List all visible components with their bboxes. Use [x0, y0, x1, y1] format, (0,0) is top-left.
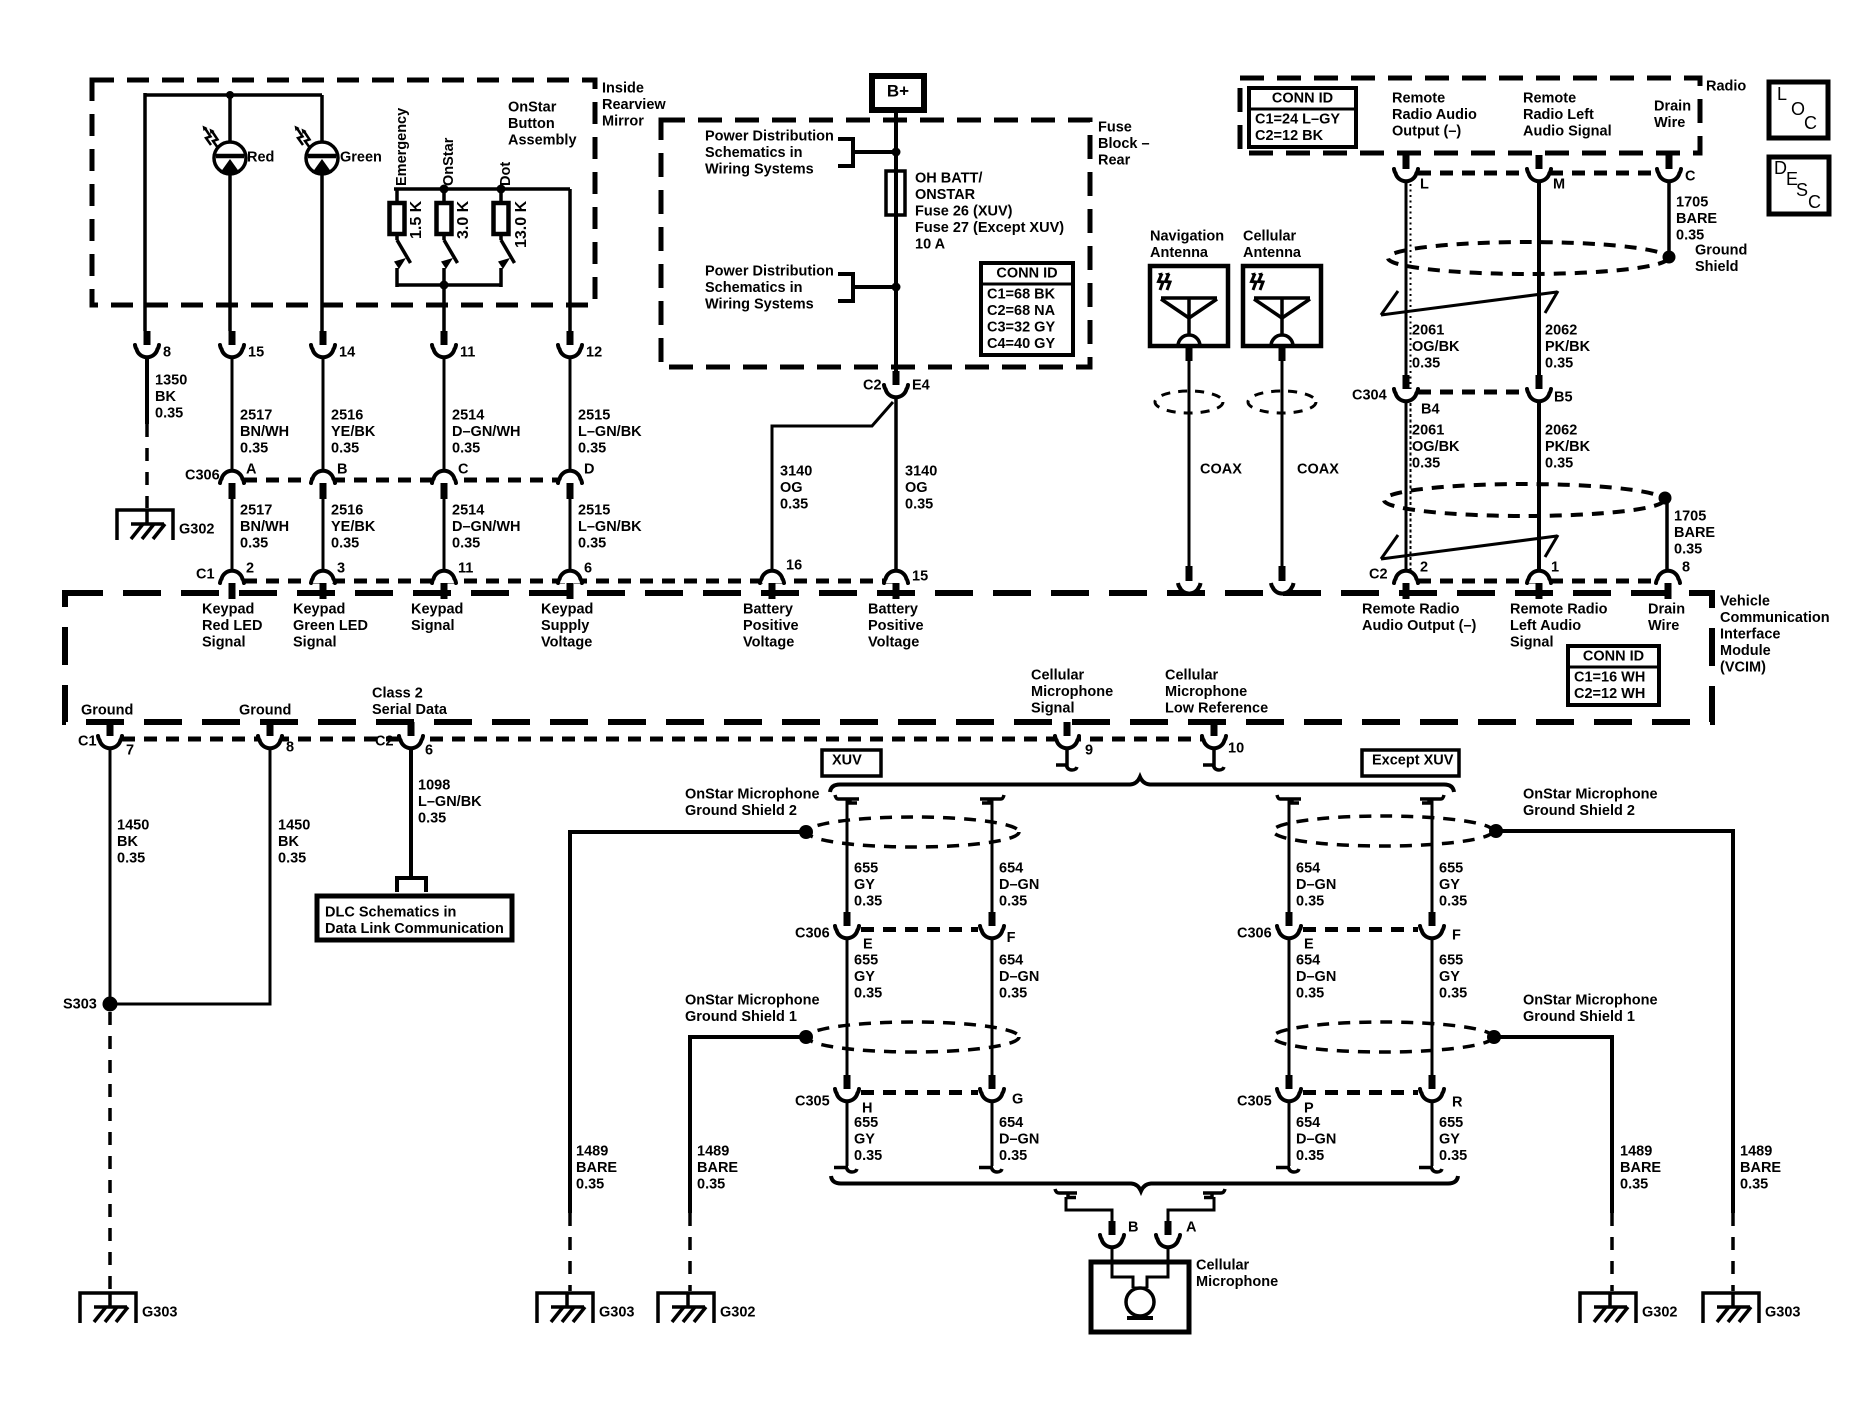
svg-text:E4: E4: [912, 378, 930, 394]
svg-text:Green LED: Green LED: [293, 618, 368, 634]
svg-text:Cellular: Cellular: [1031, 668, 1085, 684]
wire ground shield 2 ExXUV: [1496, 831, 1733, 1291]
svg-text:0.35: 0.35: [1439, 986, 1467, 1002]
svg-text:0.35: 0.35: [999, 986, 1027, 1002]
svg-text:D–GN: D–GN: [1296, 1132, 1336, 1148]
svg-text:Remote: Remote: [1392, 91, 1445, 107]
svg-text:1450: 1450: [278, 818, 310, 834]
wire C2 row dashed link: [1418, 579, 1657, 584]
wire coax cellular: [1279, 348, 1286, 581]
label wire 655 upper 1: [854, 861, 882, 910]
svg-text:C4=40 GY: C4=40 GY: [987, 336, 1055, 352]
svg-text:Wiring Systems: Wiring Systems: [705, 162, 814, 178]
svg-text:G302: G302: [720, 1305, 755, 1321]
connector radio pin L: [1394, 155, 1429, 193]
connector C306 pin A: [220, 462, 257, 499]
svg-text:BARE: BARE: [1740, 1160, 1781, 1176]
svg-text:Microphone: Microphone: [1031, 684, 1113, 700]
label Battery Positive Voltage 2: [868, 602, 924, 651]
node bus junction Dot: [497, 185, 506, 194]
box Inside Rearview Mirror (dashed): [92, 80, 595, 305]
svg-text:2: 2: [246, 561, 254, 577]
label OnStar Microphone Ground Shield 2 (XUV): [685, 787, 820, 820]
label wire 655 lower 4: [1439, 1115, 1467, 1164]
svg-text:655: 655: [1439, 861, 1463, 877]
node ground shield junction lower: [1659, 492, 1672, 505]
svg-text:0.35: 0.35: [1296, 894, 1324, 910]
svg-text:BN/WH: BN/WH: [240, 424, 289, 440]
svg-text:BK: BK: [117, 834, 138, 850]
svg-text:Radio: Radio: [1706, 79, 1746, 95]
svg-text:Navigation: Navigation: [1150, 229, 1224, 245]
svg-text:655: 655: [1439, 953, 1463, 969]
svg-text:OnStar Microphone: OnStar Microphone: [685, 787, 820, 803]
svg-text:0.35: 0.35: [578, 536, 606, 552]
shield ellipse radio upper: [1388, 242, 1668, 274]
svg-text:Keypad: Keypad: [202, 602, 254, 618]
svg-text:XUV: XUV: [832, 753, 862, 769]
svg-text:Communication: Communication: [1720, 610, 1830, 626]
svg-text:Wire: Wire: [1654, 115, 1685, 131]
hook to mic A: [1168, 1189, 1225, 1222]
wire 3140 diagonal branch: [772, 402, 893, 569]
label Inside Rearview Mirror: [602, 81, 666, 130]
svg-text:8: 8: [163, 345, 171, 361]
wire 2517 upper: [231, 359, 234, 469]
svg-text:655: 655: [854, 953, 878, 969]
svg-text:10: 10: [1228, 741, 1244, 757]
power feed B+ box: [872, 76, 924, 110]
svg-text:C2=12 WH: C2=12 WH: [1574, 686, 1645, 702]
connector C305 pin P mic 3: [1277, 1075, 1314, 1117]
box LOC: [1769, 82, 1828, 138]
wire drain lower: [1665, 502, 1669, 569]
wire C306 mic right dashed: [1303, 927, 1418, 932]
connector radio pin M: [1527, 155, 1565, 193]
label wire 1450 BK right: [278, 818, 310, 867]
svg-text:0.35: 0.35: [854, 1148, 882, 1164]
svg-text:2062: 2062: [1545, 423, 1577, 439]
svg-text:C1: C1: [78, 734, 97, 750]
connector C2 pin 6b: [399, 722, 433, 759]
wire 2514 lower: [443, 498, 446, 569]
label C306 mic right: [1237, 926, 1272, 942]
svg-text:Ground: Ground: [239, 703, 291, 719]
svg-text:0.35: 0.35: [1412, 356, 1440, 372]
label wire 1489 BARE c: [1740, 1144, 1781, 1193]
svg-text:2516: 2516: [331, 408, 363, 424]
svg-text:1098: 1098: [418, 778, 450, 794]
svg-text:Ground Shield 1: Ground Shield 1: [1523, 1009, 1635, 1025]
node shield1 ExXUV dot: [1487, 1030, 1501, 1044]
svg-text:Interface: Interface: [1720, 627, 1780, 643]
wire mic pin B lead: [1111, 1249, 1114, 1264]
svg-text:0.35: 0.35: [1676, 228, 1704, 244]
connector C306 pin F mic 2: [980, 912, 1016, 946]
svg-text:0.35: 0.35: [1439, 894, 1467, 910]
svg-text:0.35: 0.35: [1296, 986, 1324, 1002]
svg-text:2514: 2514: [452, 503, 484, 519]
svg-text:E: E: [863, 937, 873, 953]
wire mic mid 2: [991, 940, 994, 1075]
wire mic mid 3: [1288, 940, 1291, 1075]
connector C1 pin 8b: [258, 722, 294, 756]
connector C2 pin E4: [863, 371, 930, 397]
svg-text:Microphone: Microphone: [1196, 1274, 1278, 1290]
svg-text:2062: 2062: [1545, 323, 1577, 339]
svg-text:Voltage: Voltage: [541, 635, 592, 651]
label Dot (rotated): [498, 162, 514, 186]
label wire 655 mid 4: [1439, 953, 1467, 1002]
label wire 654 lower 2: [999, 1115, 1039, 1164]
svg-text:D–GN: D–GN: [999, 969, 1039, 985]
label wire 1705 BARE upper: [1676, 195, 1717, 244]
svg-text:G303: G303: [1765, 1305, 1800, 1321]
wire C304 dashed link: [1418, 390, 1527, 395]
LED Green: [295, 126, 382, 175]
wire remote audio output (dotted shield): [1406, 183, 1411, 570]
svg-text:Radio Audio: Radio Audio: [1392, 107, 1477, 123]
wire radio pin row dashed: [1418, 171, 1657, 176]
label Remote Radio Left Audio Signal: [1523, 91, 1612, 140]
connector VCIM pin 15: [884, 569, 928, 599]
ground G302 d: [1580, 1292, 1677, 1323]
svg-text:15: 15: [912, 569, 928, 585]
svg-text:2517: 2517: [240, 503, 272, 519]
svg-text:OnStar: OnStar: [508, 100, 557, 116]
svg-text:C306: C306: [1237, 926, 1272, 942]
antenna Cellular: [1243, 229, 1321, 346]
svg-text:D–GN/WH: D–GN/WH: [452, 424, 520, 440]
svg-text:YE/BK: YE/BK: [331, 519, 376, 535]
box Fuse Block - Rear (dashed): [661, 120, 1090, 367]
svg-text:OH BATT/: OH BATT/: [915, 171, 982, 187]
label COAX cellular: [1297, 462, 1339, 478]
svg-text:Signal: Signal: [1031, 701, 1075, 717]
svg-text:Signal: Signal: [1510, 635, 1554, 651]
svg-text:GY: GY: [1439, 1132, 1460, 1148]
svg-text:Schematics in: Schematics in: [705, 280, 803, 296]
svg-text:654: 654: [999, 861, 1023, 877]
svg-text:D–GN: D–GN: [999, 1132, 1039, 1148]
label wire 655 mid 1: [854, 953, 882, 1002]
svg-text:0.35: 0.35: [331, 536, 359, 552]
svg-text:L: L: [1420, 177, 1429, 193]
svg-text:3140: 3140: [905, 464, 937, 480]
svg-text:C2: C2: [863, 378, 882, 394]
svg-text:Drain: Drain: [1648, 602, 1685, 618]
svg-text:YE/BK: YE/BK: [331, 424, 376, 440]
wire battery feed: [894, 110, 898, 371]
svg-text:Output (–): Output (–): [1392, 124, 1461, 140]
svg-text:Cellular: Cellular: [1165, 668, 1219, 684]
svg-text:Dot: Dot: [498, 162, 514, 186]
svg-text:0.35: 0.35: [854, 986, 882, 1002]
svg-text:GY: GY: [854, 969, 875, 985]
svg-text:7: 7: [126, 743, 134, 759]
svg-text:GY: GY: [1439, 969, 1460, 985]
connector VCIM pin 2: [1394, 560, 1428, 599]
svg-text:C2: C2: [1369, 567, 1388, 583]
resistor 13.0 K with Dot switch: [494, 189, 531, 287]
label Remote Radio Audio Output: [1392, 91, 1477, 140]
wire mic low 2: [979, 1103, 1002, 1172]
brace bottom: [831, 1176, 1458, 1191]
connector C305 pin G mic 2: [980, 1075, 1023, 1108]
label C2 (bottom): [375, 734, 394, 750]
label wire 655 lower 1: [854, 1115, 882, 1164]
svg-text:BARE: BARE: [576, 1160, 617, 1176]
wire 1350 BK from pin 8: [145, 359, 149, 508]
label Remote Radio Left Audio Signal (VCIM): [1510, 602, 1608, 651]
wire 2061 lower: [1406, 403, 1411, 570]
label Emergency (rotated): [394, 108, 410, 186]
wire mic mid 4: [1431, 940, 1434, 1075]
svg-text:C2: C2: [375, 734, 394, 750]
svg-text:Shield: Shield: [1695, 259, 1739, 275]
svg-text:Keypad: Keypad: [293, 602, 345, 618]
label C1 (VCIM keypad side): [196, 567, 215, 583]
svg-text:Battery: Battery: [743, 602, 793, 618]
connector coax cellular at VCIM: [1271, 583, 1294, 594]
svg-text:654: 654: [1296, 1115, 1320, 1131]
wire switch return bus: [397, 283, 501, 287]
svg-text:11: 11: [460, 345, 475, 361]
label C305 mic left: [795, 1094, 830, 1110]
svg-text:D–GN: D–GN: [1296, 969, 1336, 985]
connector mic pin A: [1156, 1220, 1197, 1248]
wire 2517 lower: [231, 498, 234, 569]
svg-text:Antenna: Antenna: [1243, 245, 1302, 261]
wire 2516 upper: [322, 359, 325, 469]
node feed junction 2: [892, 283, 901, 292]
label wire 2062 PK/BK lower: [1545, 423, 1591, 472]
connector mirror pin 12: [558, 331, 602, 361]
shield ellipse mic ExXUV upper: [1273, 816, 1493, 846]
label Ground 1: [81, 703, 133, 719]
svg-text:Wire: Wire: [1648, 618, 1679, 634]
label OnStar (rotated): [441, 137, 457, 186]
svg-text:2514: 2514: [452, 408, 484, 424]
wire C306 mic left dashed: [861, 927, 978, 932]
wire mic low 3: [1276, 1103, 1299, 1172]
label wire 2061 OG/BK lower: [1412, 423, 1460, 472]
svg-text:C: C: [1685, 169, 1696, 185]
svg-text:L–GN/BK: L–GN/BK: [418, 794, 482, 810]
label wire 1489 BARE d: [1620, 1144, 1661, 1193]
svg-text:Power Distribution: Power Distribution: [705, 129, 834, 145]
svg-text:655: 655: [854, 1115, 878, 1131]
wire mic low 1: [834, 1103, 857, 1172]
svg-text:0.35: 0.35: [1620, 1177, 1648, 1193]
label Ground 2: [239, 703, 291, 719]
wire keypad signal drop: [442, 285, 446, 331]
connector C306 pin B: [311, 462, 347, 499]
svg-text:11: 11: [458, 561, 473, 577]
svg-text:L: L: [1777, 84, 1787, 104]
svg-text:B5: B5: [1554, 390, 1573, 406]
connector mirror pin 11: [432, 331, 475, 361]
wire mic stub top 1: [835, 795, 859, 913]
svg-text:CONN ID: CONN ID: [1583, 649, 1644, 665]
svg-text:C: C: [1804, 113, 1817, 133]
wire ground shield 1 ExXUV: [1494, 1037, 1612, 1291]
svg-text:Remote Radio: Remote Radio: [1510, 602, 1608, 618]
wire mic stub top 3: [1277, 795, 1301, 913]
svg-text:Remote: Remote: [1523, 91, 1576, 107]
label Fuse Block - Rear: [1098, 120, 1150, 169]
svg-text:0.35: 0.35: [278, 851, 306, 867]
label COAX navigation: [1200, 462, 1242, 478]
svg-text:Ground Shield 2: Ground Shield 2: [685, 803, 797, 819]
svg-text:BARE: BARE: [1674, 525, 1715, 541]
svg-text:Ground: Ground: [81, 703, 133, 719]
box Cellular Microphone: [1091, 1262, 1189, 1332]
svg-text:Low Reference: Low Reference: [1165, 701, 1268, 717]
svg-text:0.35: 0.35: [452, 441, 480, 457]
svg-text:0.35: 0.35: [576, 1177, 604, 1193]
connector C1 pin 6: [558, 561, 592, 599]
label Power Distribution 1: [705, 129, 834, 178]
svg-text:Positive: Positive: [743, 618, 799, 634]
svg-text:0.35: 0.35: [1439, 1148, 1467, 1164]
label C1 (bottom): [78, 734, 97, 750]
svg-text:C306: C306: [795, 926, 830, 942]
connector C306 pin F mic 4: [1420, 912, 1461, 944]
svg-text:1450: 1450: [117, 818, 149, 834]
svg-text:C306: C306: [185, 468, 220, 484]
svg-text:F: F: [1452, 928, 1461, 944]
svg-text:C1=24 L–GY: C1=24 L–GY: [1255, 112, 1340, 128]
connector coax navigation at VCIM: [1178, 583, 1201, 594]
connector C305 pin H mic 1: [835, 1075, 872, 1117]
svg-text:0.35: 0.35: [1545, 356, 1573, 372]
svg-text:OnStar Microphone: OnStar Microphone: [685, 993, 820, 1009]
label wire 1350 BK 0.35: [155, 373, 187, 422]
wire top bus in mirror: [145, 93, 322, 97]
svg-text:Remote Radio: Remote Radio: [1362, 602, 1460, 618]
connector row C306 dashed link: [244, 478, 558, 483]
coax shield ellipse cellular: [1248, 391, 1316, 413]
svg-text:13.0 K: 13.0 K: [513, 200, 530, 248]
label wire 2517 BN/WH lower: [240, 503, 289, 552]
svg-text:0.35: 0.35: [1296, 1148, 1324, 1164]
label wire 2062 PK/BK upper: [1545, 323, 1591, 372]
label wire 2515 L-GN/BK lower: [578, 503, 642, 552]
wire keypad supply drop: [568, 189, 572, 331]
svg-text:9: 9: [1085, 743, 1093, 759]
label wire 2061 OG/BK upper: [1412, 323, 1460, 372]
svg-text:C2=12 BK: C2=12 BK: [1255, 128, 1324, 144]
svg-text:655: 655: [854, 861, 878, 877]
node shield2 XUV dot: [799, 825, 813, 839]
wire left drop to pin 8: [143, 93, 147, 331]
svg-text:G303: G303: [142, 1305, 177, 1321]
svg-text:Left Audio: Left Audio: [1510, 618, 1581, 634]
svg-text:Cellular: Cellular: [1243, 229, 1297, 245]
svg-text:M: M: [1553, 177, 1565, 193]
svg-text:12: 12: [586, 345, 602, 361]
label wire 654 lower 3: [1296, 1115, 1336, 1164]
svg-text:C2=68 NA: C2=68 NA: [987, 303, 1056, 319]
box DESC: [1769, 157, 1829, 214]
svg-text:C1=68 BK: C1=68 BK: [987, 287, 1056, 303]
label Power Distribution 2: [705, 264, 834, 313]
svg-text:D–GN: D–GN: [1296, 877, 1336, 893]
svg-text:654: 654: [999, 1115, 1023, 1131]
svg-text:Red LED: Red LED: [202, 618, 262, 634]
wire mic pin A lead: [1167, 1249, 1170, 1264]
svg-text:BK: BK: [278, 834, 299, 850]
svg-text:Mirror: Mirror: [602, 114, 644, 130]
svg-text:0.35: 0.35: [780, 497, 808, 513]
label wire 3140 OG right: [905, 464, 937, 513]
svg-text:L–GN/BK: L–GN/BK: [578, 519, 642, 535]
svg-text:B4: B4: [1421, 402, 1440, 418]
label Keypad Red LED Signal: [202, 602, 262, 651]
svg-text:1489: 1489: [697, 1144, 729, 1160]
svg-text:1: 1: [1551, 560, 1559, 576]
svg-text:CONN ID: CONN ID: [1272, 91, 1333, 107]
connector C304 pin B4: [1394, 375, 1440, 418]
label wire 2516 YE/BK lower: [331, 503, 376, 552]
svg-text:Battery: Battery: [868, 602, 918, 618]
svg-text:COAX: COAX: [1200, 462, 1242, 478]
wire coax navigation: [1186, 348, 1193, 581]
label wire 1705 BARE lower: [1674, 509, 1715, 558]
svg-text:Keypad: Keypad: [411, 602, 463, 618]
svg-text:D–GN: D–GN: [999, 877, 1039, 893]
label wire 654 mid 2: [999, 953, 1039, 1002]
svg-text:2515: 2515: [578, 408, 610, 424]
ground G302 (mirror): [117, 509, 214, 540]
box XUV: [822, 750, 881, 776]
connector C306 pin E mic 3: [1277, 912, 1314, 953]
svg-text:C3=32 GY: C3=32 GY: [987, 320, 1055, 336]
connector C306 pin D: [558, 462, 594, 499]
label OnStar Microphone Ground Shield 1 (ExXUV): [1523, 993, 1658, 1026]
label Keypad Supply Voltage: [541, 602, 593, 651]
svg-text:Cellular: Cellular: [1196, 1258, 1250, 1274]
node junction on top bus: [226, 91, 234, 99]
svg-text:OnStar Microphone: OnStar Microphone: [1523, 787, 1658, 803]
label wire 1489 BARE b: [697, 1144, 738, 1193]
svg-text:E: E: [1304, 937, 1314, 953]
connector C304 pin B5: [1527, 375, 1573, 406]
label Cellular Microphone Low Reference: [1165, 668, 1268, 717]
svg-text:0.35: 0.35: [905, 497, 933, 513]
svg-text:Voltage: Voltage: [868, 635, 919, 651]
svg-text:15: 15: [248, 345, 264, 361]
svg-text:OnStar: OnStar: [441, 137, 457, 186]
svg-text:654: 654: [1296, 953, 1320, 969]
svg-text:16: 16: [786, 558, 802, 574]
label Cellular Microphone: [1196, 1258, 1278, 1291]
svg-text:OG/BK: OG/BK: [1412, 439, 1460, 455]
svg-text:0.35: 0.35: [117, 851, 145, 867]
svg-text:B: B: [1128, 1220, 1138, 1236]
label wire 655 upper 4: [1439, 861, 1467, 910]
antenna Navigation: [1150, 229, 1228, 346]
wire 2514 upper: [443, 359, 446, 469]
svg-text:DLC Schematics in: DLC Schematics in: [325, 905, 456, 921]
svg-text:Class 2: Class 2: [372, 686, 423, 702]
svg-text:654: 654: [999, 953, 1023, 969]
label wire 654 upper 3: [1296, 861, 1336, 910]
svg-text:A: A: [246, 462, 257, 478]
svg-text:GY: GY: [1439, 877, 1460, 893]
ground G303 a: [537, 1292, 634, 1323]
